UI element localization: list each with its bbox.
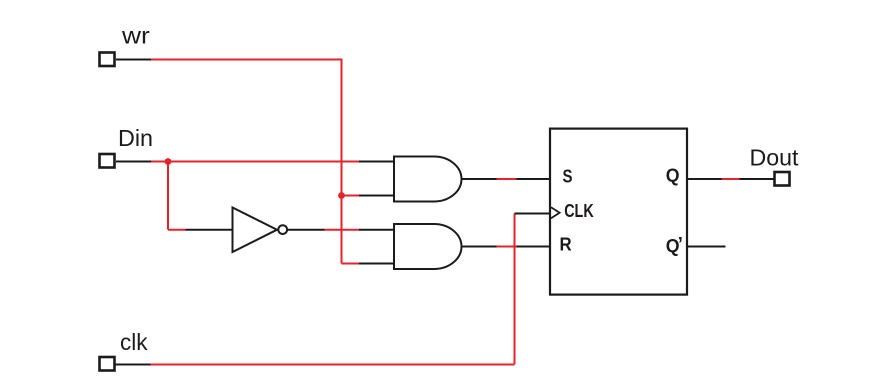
inverter U3 triangle [233, 208, 278, 253]
wire Q-Dout red [722, 178, 740, 180]
inverter bubble [278, 225, 287, 234]
AND gate U1 body [394, 157, 462, 202]
wire AND2 output black [462, 246, 497, 248]
wire Q' stub [687, 246, 726, 248]
wire wr black stub [116, 59, 151, 61]
svg-text:R: R [560, 234, 572, 255]
flip-flop U4 box [550, 129, 687, 295]
svg-text:Dout: Dout [750, 145, 800, 171]
wire black inverter input stub [186, 229, 234, 231]
wire Q output black stub [687, 178, 722, 180]
AND gate U1 input stubs [359, 161, 395, 163]
wire wr red horizontal [151, 59, 343, 61]
terminal Din [100, 154, 115, 168]
svg-text:Din: Din [118, 125, 153, 151]
svg-text:S: S [563, 165, 573, 186]
AND gate U2 body [394, 224, 462, 269]
wire inverter output red [325, 229, 360, 231]
wire clk black stub [115, 364, 151, 366]
wire wr to AND2 B input (red) [342, 263, 360, 265]
wire clk black into CLK pin [515, 213, 552, 215]
svg-text:CLK: CLK [564, 200, 594, 221]
wire AND1-S red [497, 178, 517, 180]
junction dot wr/AND1 [338, 192, 345, 199]
svg-text:clk: clk [120, 329, 148, 355]
terminal wr [100, 53, 115, 67]
wire inverter output black stub [288, 229, 325, 231]
svg-text:Q: Q [666, 164, 680, 185]
clk edge arrow [551, 207, 560, 218]
wire wr to AND1 B input (red) [342, 195, 360, 197]
wire clk red horizontal [151, 364, 515, 366]
wire Dout black stub [740, 178, 775, 180]
wire Din red horizontal [151, 161, 359, 163]
wire red into inverter input [168, 229, 186, 231]
junction dot Din [165, 158, 172, 165]
wire S pin black stub [517, 178, 552, 180]
wire Din black stub [116, 161, 151, 163]
wire Din red vertical to inverter [167, 162, 169, 230]
svg-text:’: ’ [678, 233, 683, 254]
wire clk red vertical [514, 214, 516, 365]
wire wr red vertical [341, 60, 343, 264]
terminal clk [100, 357, 115, 371]
AND gate U2 input stubs [359, 229, 395, 231]
terminal Dout [775, 172, 790, 186]
wire AND1 output black [462, 178, 497, 180]
svg-text:wr: wr [121, 23, 150, 49]
wire AND2-R red [497, 246, 517, 248]
wire R pin black stub [517, 246, 552, 248]
